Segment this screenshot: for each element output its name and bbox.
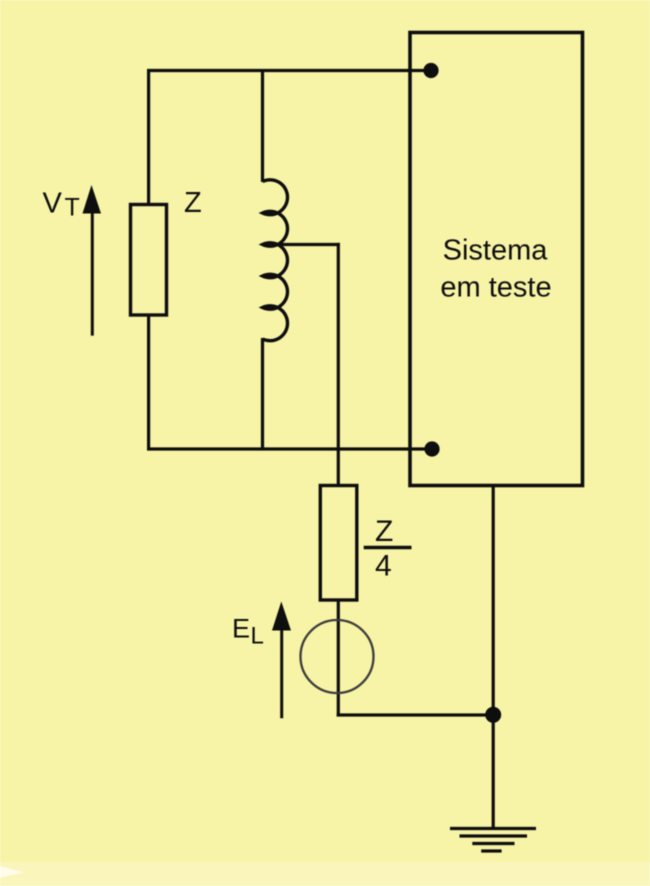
label Z/4 [364, 515, 412, 583]
svg-text:E: E [232, 613, 250, 643]
source circle [301, 620, 374, 693]
wire: left vertical upper segment [147, 69, 150, 204]
svg-text:L: L [251, 622, 264, 649]
wire: inductor branch top stub [261, 69, 264, 182]
wire: inductor branch bottom stub [261, 338, 264, 451]
svg-text:Z: Z [375, 515, 393, 548]
arrow VT [83, 185, 102, 336]
svg-text:Z: Z [184, 187, 202, 219]
junction node [485, 707, 501, 723]
arrow EL [272, 602, 291, 719]
resistor Z/4 [320, 486, 357, 601]
wire: left vertical lower segment [147, 315, 150, 451]
node top [423, 63, 438, 78]
svg-text:T: T [65, 194, 80, 222]
svg-text:em teste: em teste [440, 272, 551, 304]
wire: top horizontal from left branch to box node [147, 69, 431, 72]
inductor L [263, 180, 288, 341]
resistor Z [131, 205, 167, 316]
wire: inductor tap horizontal [271, 243, 340, 246]
wire: tap vertical down to Z/4 [337, 243, 340, 485]
wire: Z/4 bottom through source to corner [337, 600, 340, 717]
wire: junction to ground [492, 715, 495, 829]
svg-text:4: 4 [375, 550, 392, 583]
node bottom [424, 441, 439, 456]
svg-text:Sistema: Sistema [443, 235, 549, 267]
ground [450, 829, 536, 852]
svg-text:V: V [43, 188, 63, 220]
wire: bottom horizontal from left branch to box node [147, 447, 432, 450]
wire: bottom horizontal to junction [337, 713, 494, 716]
box Sistema em teste [410, 33, 583, 486]
wire: box bottom vertical to junction [492, 485, 495, 715]
